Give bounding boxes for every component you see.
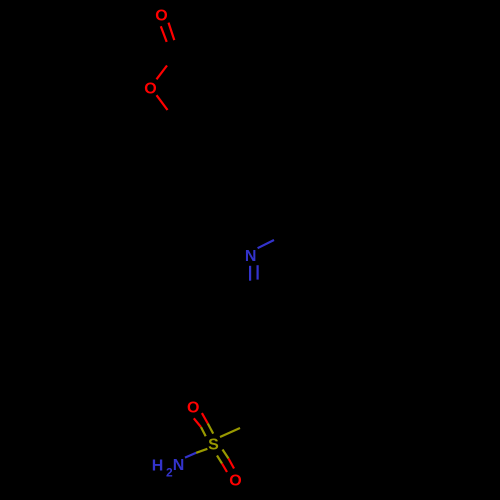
double bond S=O3 line 2 sulfur half [208, 424, 213, 434]
svg-text:O: O [187, 400, 199, 417]
svg-text:H: H [152, 458, 164, 475]
double bond S=O3 line 1 sulfur half [201, 427, 206, 436]
svg-text:N: N [245, 248, 257, 265]
double bond N1=C line 2 [257, 265, 259, 279]
double bond S=O3 line 2 red half [202, 413, 208, 423]
svg-text:O: O [155, 8, 167, 25]
wire O2 to ring C (red half) [157, 95, 168, 110]
wire S to ring C (sulfur half) [220, 428, 240, 437]
double bond S=O4 line 1 sulfur half [217, 456, 222, 464]
svg-text:O: O [229, 473, 241, 490]
wire N2 to S (blue half) [185, 453, 196, 458]
double bond S=O3 line 1 red half [194, 418, 201, 427]
svg-text:N: N [173, 457, 185, 474]
double bond C=O1 line 1 [161, 26, 167, 42]
svg-text:S: S [208, 437, 219, 454]
double bond S=O4 line 2 red half [229, 459, 235, 469]
double bond S=O4 line 2 sulfur half [223, 450, 229, 459]
double bond C=O1 line 2 [169, 23, 175, 40]
wire N2 to S (sulfur half) [196, 449, 207, 453]
double bond N1=C line 1 [249, 266, 251, 281]
wire N1 to C upper-right (blue half) [258, 240, 274, 248]
svg-text:O: O [144, 81, 156, 98]
wire O2 to carbonyl C (red half) [157, 66, 168, 80]
double bond S=O4 line 1 red half [222, 464, 227, 473]
